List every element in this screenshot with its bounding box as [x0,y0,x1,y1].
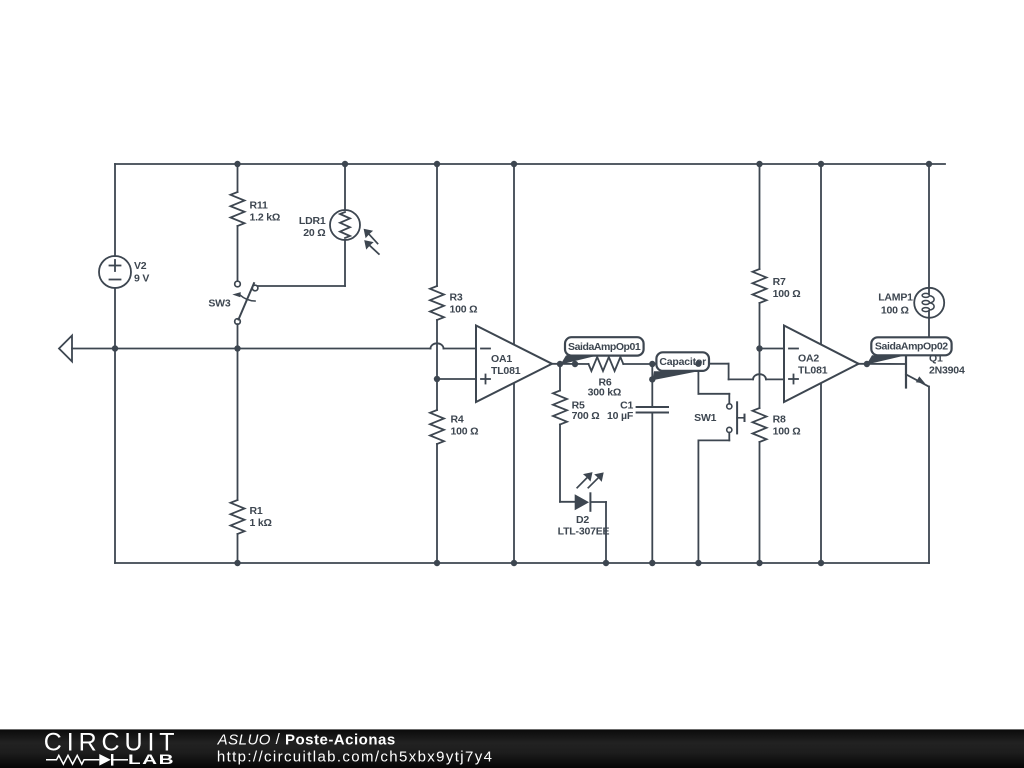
svg-text:700 Ω: 700 Ω [572,410,600,422]
svg-text:D2: D2 [576,514,589,526]
node bottom rail x=606 [603,560,609,566]
wire left rail lower [114,288,116,563]
node bottom rail x=437 [434,560,440,566]
svg-text:TL081: TL081 [491,365,521,377]
node bottom rail x=652.3 [649,560,655,566]
svg-text:1.2 kΩ: 1.2 kΩ [250,212,281,224]
svg-text:V2: V2 [134,260,147,272]
svg-text:LAMP1: LAMP1 [878,291,913,303]
node R6 right [649,361,655,367]
resistor R5 [553,364,567,502]
label LAMP1 100R [878,291,913,316]
label R11 1.2k [250,200,281,224]
label R1 1k [250,505,272,529]
svg-text:100 Ω: 100 Ω [773,426,801,438]
label SW3 [208,298,231,310]
node bottom rail x=514 [511,560,517,566]
node OA2 minus [756,345,762,351]
logo doodle resistor and diode [46,754,128,766]
svg-text:20 Ω: 20 Ω [303,227,325,239]
node top rail x=929 [926,161,932,167]
wire horizontal to OA1 minus input [72,348,431,350]
op-amp OA2 [784,326,859,403]
voltage source V2 [99,256,131,288]
label C1 10uF [607,400,634,423]
wire left rail upper [114,164,116,256]
svg-text:OA1: OA1 [491,353,512,365]
node top rail x=437 [434,161,440,167]
flag SaidaAmpOp02 [867,337,952,364]
svg-text:SW3: SW3 [208,298,231,310]
svg-text:R4: R4 [451,414,464,426]
op-amp OA1 [476,326,552,403]
svg-text:http://circuitlab.com/ch5xbx9y: http://circuitlab.com/ch5xbx9ytj7y4 [217,748,493,765]
svg-text:R1: R1 [250,505,263,517]
svg-text:100 Ω: 100 Ω [450,303,478,315]
node bottom rail x=821 [818,560,824,566]
svg-text:R3: R3 [450,291,463,303]
switch SW3 [232,281,258,324]
svg-text:1 kΩ: 1 kΩ [250,517,272,529]
node top rail x=821 [818,161,824,167]
wire OA1 output [552,363,589,365]
svg-text:100 Ω: 100 Ω [451,426,479,438]
label Q1 2N3904 [929,353,965,377]
svg-text:9 V: 9 V [134,273,149,285]
flag SaidaAmpOp01 [561,337,644,364]
wire OA1 plus input [437,378,476,380]
label R5 700R [572,400,600,423]
svg-text:100 Ω: 100 Ω [881,304,909,316]
node bottom rail x=759.5 [756,560,762,566]
node capacitor flag anchor [649,376,655,382]
node top rail x=514 [511,161,517,167]
wire SW1 bottom to rail [698,433,729,564]
node junction over flag [695,361,701,367]
node x=237.5 y=348.5 [234,345,240,351]
label LDR1 20R [299,215,326,239]
node top rail x=345 [342,161,348,167]
switch SW1 [727,402,745,433]
label D2 LTL-307EE [558,514,610,538]
node flag anchor 01 [572,361,578,367]
node OA1 plus [434,376,440,382]
resistor R6 [589,357,653,371]
node top rail x=237.5 [234,161,240,167]
svg-text:SaidaAmpOp02: SaidaAmpOp02 [875,341,948,353]
resistor R11 [231,164,245,281]
label R3 100R [450,291,478,315]
wire SW3 bottom to horizontal [237,324,239,348]
resistor R7 [753,164,767,408]
svg-text:100 Ω: 100 Ω [773,288,801,300]
label R8 100R [773,414,801,438]
svg-text:R8: R8 [773,414,786,426]
wire OA2 minus input [760,348,785,350]
wire OA2 output to Q1 base [859,363,906,365]
node OA2 output [864,361,870,367]
wire to SW1 [698,364,729,404]
wire hop over x=437 [431,343,444,348]
resistor R1 [231,349,245,564]
transistor Q1 [906,342,929,564]
capacitor C1 [637,364,668,563]
flag Capacitor [652,352,709,380]
svg-text:2N3904: 2N3904 [929,364,965,376]
LED D2 [560,472,606,563]
svg-text:OA2: OA2 [798,353,819,365]
svg-text:SW1: SW1 [694,412,717,424]
wire capacitor net to OA2 plus [652,363,728,365]
svg-text:R7: R7 [773,276,786,288]
label R6 300k [588,377,622,399]
label V2 9V [134,260,149,285]
svg-text:TL081: TL081 [798,365,828,377]
svg-text:SaidaAmpOp01: SaidaAmpOp01 [568,341,641,353]
lamp LAMP1 [914,164,944,342]
wire vertical x=514 [513,164,515,563]
svg-text:LTL-307EE: LTL-307EE [558,526,610,538]
photoresistor LDR1 [258,164,379,286]
svg-text:R11: R11 [250,200,268,212]
node left rail y=348.5 [112,345,118,351]
svg-text:10 µF: 10 µF [607,410,634,422]
node bottom rail x=237.5 [234,560,240,566]
label SW1 [694,412,717,424]
wire hop over x=759.5 [753,374,766,379]
node bottom rail x=698.4 [695,560,701,566]
footer bar [0,729,1024,768]
node OA1 output [557,361,563,367]
label R4 100R [451,414,479,438]
svg-text:ASLUO / Poste-Acionas: ASLUO / Poste-Acionas [217,731,396,748]
wire bottom rail [115,562,929,564]
label OA1 TL081 [491,353,521,377]
node top rail x=759.5 [756,161,762,167]
label OA2 TL081 [798,353,828,377]
resistor R8 [753,408,767,563]
label R7 100R [773,276,801,300]
node flag pointer (left arrow) [59,336,72,362]
svg-text:300 kΩ: 300 kΩ [588,386,622,398]
resistor R3 [430,164,444,410]
svg-text:LDR1: LDR1 [299,215,326,227]
wire vertical x=821 [820,164,822,563]
resistor R4 [430,410,444,563]
wire top rail [115,163,945,165]
svg-text:LAB: LAB [128,752,175,768]
